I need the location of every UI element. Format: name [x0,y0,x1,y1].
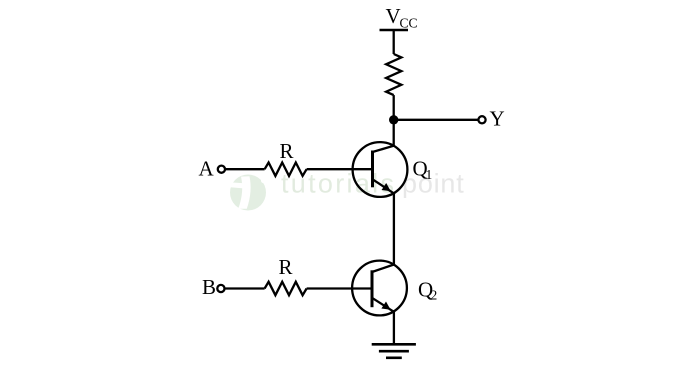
wire Q1 emitter to Q2 collector [393,193,395,264]
svg-text:V: V [386,4,401,28]
node junction dot [389,115,398,124]
wire Q2 emitter to ground [393,312,395,345]
wire B to resistor R (input B) [225,287,265,289]
wire A to resistor R (input A) [225,168,264,170]
transistor Q2 [352,261,407,316]
svg-text:Y: Y [490,107,505,131]
watermark logo circle [230,175,266,211]
ground [372,344,416,358]
watermark text tutorialspoint [281,169,465,199]
terminal A open circle [218,166,225,173]
wire resistor RC to node Y [393,95,395,120]
transistor Q1 [353,142,408,197]
power VCC rail bar [380,29,409,31]
wire node to output terminal Y [394,119,478,121]
terminal Y open circle [478,116,485,123]
svg-text:point: point [402,169,465,199]
svg-text:2: 2 [431,288,438,303]
svg-text:B: B [202,275,216,299]
svg-text:CC: CC [400,16,418,31]
svg-text:1: 1 [426,167,433,182]
terminal B open circle [217,285,224,292]
resistor RC (collector pull-up, vertical) [386,54,401,95]
svg-text:R: R [279,255,293,279]
wire resistor to Q2 base [307,287,372,289]
wire node to Q1 collector [393,120,395,146]
wire resistor to Q1 base [307,168,373,170]
label Q2 [418,277,437,302]
resistor R (input B) [265,282,307,295]
svg-text:A: A [199,157,215,181]
wire VCC bar to resistor RC [393,30,395,54]
resistor R (input A) [265,163,307,176]
svg-text:R: R [280,139,294,163]
label Q1 [413,157,433,183]
power VCC label [386,4,418,31]
